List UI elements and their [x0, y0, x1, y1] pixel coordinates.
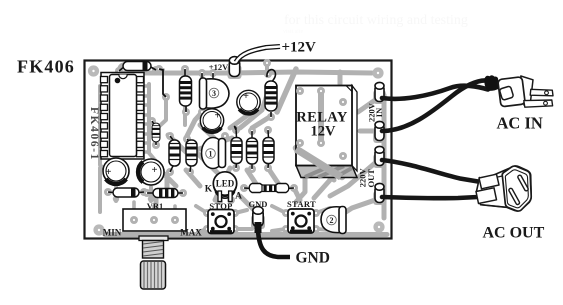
svg-text:START: START — [287, 199, 316, 209]
svg-text:K: K — [205, 185, 213, 195]
transistor Q3 — [200, 73, 230, 109]
220V OUT pin 4 — [373, 183, 386, 205]
resistor R9 horizontal — [244, 184, 294, 193]
+12V hookup wire — [236, 47, 280, 63]
GND hookup wire — [258, 230, 290, 257]
wire — [152, 96, 166, 133]
svg-text:FK406: FK406 — [17, 57, 75, 77]
220V OUT pin 3 — [373, 146, 386, 168]
220V OUT label — [358, 167, 377, 187]
svg-text:VR1: VR1 — [147, 201, 164, 211]
diode D2 — [108, 188, 144, 197]
mounting hole top-right — [372, 67, 383, 78]
wire — [240, 92, 268, 128]
wire — [247, 168, 280, 190]
wire — [183, 70, 187, 76]
resistor R1 — [180, 69, 192, 112]
wire — [360, 129, 378, 134]
svg-text:for this circuit wiring and te: for this circuit wiring and testing — [284, 13, 468, 28]
wire — [200, 74, 204, 78]
capacitor C3 — [237, 90, 260, 113]
svg-text:MIN: MIN — [103, 228, 122, 238]
wire — [272, 206, 330, 231]
wire — [330, 163, 375, 196]
wire — [215, 168, 230, 200]
wire — [382, 95, 387, 218]
AC plug prong 1 — [530, 89, 553, 96]
svg-text:2: 2 — [330, 216, 334, 225]
svg-text:OUT: OUT — [366, 169, 376, 188]
board outline — [85, 61, 392, 239]
resistor R3 — [152, 121, 160, 145]
transistor Q1 — [202, 138, 226, 169]
svg-text:+: + — [152, 165, 158, 176]
svg-text:+12V: +12V — [209, 62, 229, 72]
wire — [183, 108, 187, 125]
svg-text:LED: LED — [216, 179, 235, 189]
wire — [296, 148, 342, 177]
wire — [186, 100, 213, 138]
wire — [330, 199, 378, 222]
AC OUT wire 4 — [382, 197, 478, 198]
wire — [168, 135, 186, 152]
watermark — [283, 13, 468, 35]
GND pin — [251, 207, 265, 233]
wire — [120, 71, 233, 76]
potentiometer VR1 — [123, 209, 186, 289]
AC OUT socket — [476, 166, 531, 211]
wire — [338, 72, 343, 84]
svg-text:+12V: +12V — [282, 39, 317, 55]
capacitor C4 — [138, 159, 164, 185]
svg-text:12V: 12V — [311, 124, 337, 140]
svg-text:GND: GND — [249, 199, 268, 209]
capacitor C1 — [103, 158, 129, 184]
svg-text:IN: IN — [374, 107, 384, 117]
wire — [294, 188, 300, 200]
resistor R7 — [247, 131, 258, 169]
svg-text:+: + — [243, 91, 249, 102]
AC plug prong 2 — [524, 100, 553, 107]
AC OUT wire 3 — [382, 160, 481, 182]
relay RY1 — [296, 86, 357, 178]
mounting hole top-left — [88, 65, 99, 76]
wire — [140, 86, 149, 152]
wire — [149, 84, 160, 166]
wire — [134, 202, 175, 214]
wire — [230, 112, 252, 128]
AC IN wire 1 — [382, 86, 488, 99]
resistor R8 — [263, 130, 274, 168]
transistor Q2 — [321, 207, 346, 234]
resistor R6 — [231, 126, 242, 168]
wire — [303, 158, 334, 180]
wire — [318, 91, 324, 143]
svg-text:AC OUT: AC OUT — [483, 225, 545, 242]
AC plug body — [498, 76, 533, 107]
IC U1 FK406-1 — [101, 73, 145, 160]
start button SW2 — [288, 209, 314, 233]
resistor R10 horizontal — [147, 189, 183, 198]
wire — [160, 170, 200, 186]
node pads — [104, 59, 347, 233]
wire — [256, 210, 260, 216]
LED1 — [213, 172, 236, 202]
wire — [234, 72, 372, 73]
svg-text:+: + — [215, 111, 221, 122]
svg-text:FK406-1: FK406-1 — [88, 107, 100, 161]
svg-text:GND: GND — [296, 250, 330, 267]
svg-text:1: 1 — [209, 150, 213, 159]
wire — [196, 206, 252, 232]
wire — [298, 91, 303, 106]
svg-text:AC IN: AC IN — [497, 114, 543, 133]
AC plug strain relief — [484, 75, 499, 91]
wire — [358, 98, 378, 112]
wire — [200, 125, 214, 138]
svg-text:STOP: STOP — [209, 201, 232, 211]
mounting hole bottom-right — [373, 221, 384, 232]
wire — [100, 86, 104, 134]
wire — [98, 168, 102, 212]
svg-text:3: 3 — [212, 89, 216, 98]
stop button SW1 — [208, 210, 234, 234]
wire — [100, 86, 110, 175]
wire — [265, 63, 269, 72]
diode D1 — [119, 62, 156, 72]
resistor R5 — [186, 139, 197, 172]
220V AC-IN pin 1 — [373, 82, 386, 104]
wire — [277, 69, 296, 112]
capacitor C2 — [200, 109, 223, 132]
wire — [105, 232, 387, 237]
resistor R2 vertical mount — [265, 70, 277, 117]
wire — [196, 138, 232, 150]
svg-text:visit site: visit site — [283, 29, 304, 35]
wire traces — [100, 63, 387, 235]
svg-text:MAX: MAX — [180, 228, 202, 238]
resistor R4 — [169, 136, 180, 172]
wire — [161, 70, 165, 73]
AC IN wire 2 — [382, 80, 487, 131]
mounting hole bottom-left — [93, 224, 104, 235]
svg-text:+: + — [106, 167, 112, 178]
220V AC-IN pin 2 — [373, 121, 386, 143]
wire — [252, 118, 268, 128]
jumper wire J1 — [159, 69, 166, 97]
svg-text:A: A — [235, 192, 242, 202]
220V IN label — [367, 102, 385, 122]
+12V pin — [228, 57, 242, 79]
